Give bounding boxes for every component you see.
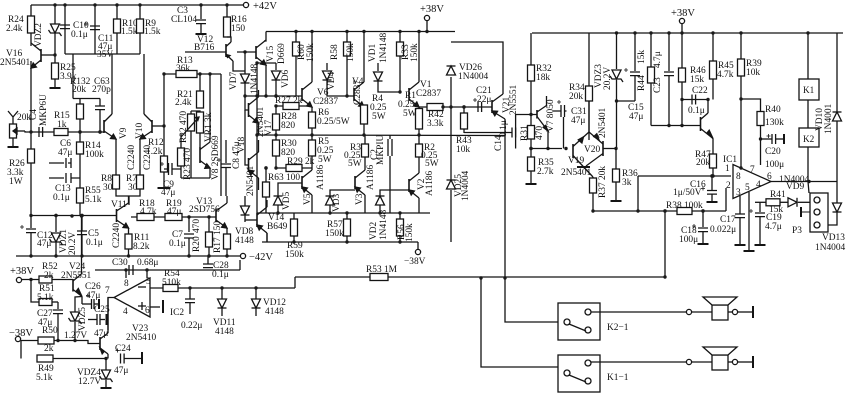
label V4	[352, 77, 364, 87]
label R41 value	[769, 205, 783, 215]
wire R5 down	[311, 156, 313, 168]
resistor R19	[165, 214, 182, 221]
junction	[529, 147, 532, 150]
svg-text:VD5: VD5	[282, 191, 292, 210]
wire V14 base	[245, 219, 257, 221]
svg-text:R40: R40	[765, 105, 781, 115]
label IC1 pin7	[750, 165, 755, 175]
label IC1 pin4	[756, 180, 761, 190]
wire VD1 bottom	[378, 81, 400, 92]
svg-text:R50: R50	[42, 326, 58, 336]
label R5 value	[317, 146, 334, 156]
label R28 value	[281, 121, 295, 131]
wire V4 collector	[363, 32, 365, 83]
resistor R60	[293, 42, 300, 56]
svg-text:8.2k: 8.2k	[133, 242, 150, 252]
wire left col	[256, 96, 258, 135]
wire lag row	[73, 98, 100, 100]
svg-text:2N5401: 2N5401	[561, 168, 592, 178]
label VDZ1	[59, 229, 69, 253]
wire R20 down	[208, 247, 210, 256]
wire VD10 dn	[836, 121, 838, 182]
resistor R33	[397, 42, 404, 56]
wire bias row y74	[164, 73, 221, 75]
wire C27 dn	[57, 314, 59, 341]
label C18	[681, 226, 697, 236]
label V18 type	[246, 165, 256, 196]
junction	[663, 209, 666, 212]
wire C19 up	[759, 202, 761, 212]
junction	[138, 3, 141, 6]
svg-text:100μ: 100μ	[765, 160, 784, 170]
wire output bus	[257, 134, 505, 137]
wire V13 emitter	[226, 228, 228, 234]
svg-text:47μ: 47μ	[114, 366, 128, 376]
label R25	[60, 63, 76, 73]
wire VD9 right	[798, 201, 810, 203]
wire C27 stub	[57, 302, 59, 309]
wire VD7 branch	[244, 71, 246, 96]
label -38V bl	[9, 328, 33, 339]
junction	[680, 98, 683, 101]
wire C25 right	[100, 319, 105, 321]
label C26	[85, 282, 101, 292]
speaker BL1	[703, 297, 737, 320]
diode VD10	[833, 112, 842, 121]
wire R12 stub	[163, 126, 165, 156]
label 20k	[17, 113, 31, 123]
svg-text:+38V: +38V	[420, 4, 444, 15]
wire V10 emitter	[139, 139, 141, 175]
svg-text:0.1μ: 0.1μ	[212, 270, 229, 280]
wire pin1 riser	[637, 176, 639, 211]
label R11 value	[133, 242, 150, 252]
label V9 type	[127, 145, 137, 170]
wire R22 down	[190, 131, 192, 178]
svg-text:4148: 4148	[265, 307, 284, 317]
label C2 type	[376, 135, 386, 165]
wire spk2 bar	[738, 361, 753, 363]
junction	[187, 254, 190, 257]
label R18 value	[140, 207, 157, 217]
capacitor C0.22	[185, 299, 195, 303]
wire V23 emitter leg	[107, 354, 109, 359]
svg-text:0.1μ: 0.1μ	[688, 106, 705, 116]
junction	[615, 99, 618, 102]
label IC2 pin6	[145, 306, 150, 316]
wire R35 gnd	[530, 171, 532, 183]
label R3	[350, 143, 361, 153]
junction	[254, 286, 257, 289]
label R3 watt	[348, 159, 362, 169]
wire R51 right	[52, 301, 58, 303]
label R11	[134, 233, 150, 243]
label +38V right	[671, 8, 695, 19]
junction	[274, 104, 277, 107]
wire V6 emitter	[311, 107, 313, 112]
capacitor C15	[624, 68, 640, 76]
label R27	[275, 96, 303, 106]
label VD10	[815, 108, 825, 131]
wire C17 stub	[739, 196, 741, 214]
label R51	[39, 284, 55, 294]
svg-text:0.1μ: 0.1μ	[71, 30, 88, 40]
label R57 value	[325, 229, 344, 239]
resistor R38	[677, 208, 692, 215]
capacitor C26	[86, 294, 94, 310]
label V17 type	[256, 106, 266, 137]
label VD1 type	[379, 32, 389, 63]
capacitor C30	[129, 265, 133, 275]
label R16	[231, 15, 247, 25]
label IC2 pin4	[123, 307, 128, 317]
terminal +38V right	[679, 18, 684, 23]
terminal bar C25	[106, 314, 108, 325]
resistor R34	[586, 86, 593, 101]
label R49 value	[36, 373, 53, 383]
wire R31 bottom stub	[530, 139, 532, 149]
wire V3 emitter	[364, 195, 366, 213]
svg-text:0.1μ: 0.1μ	[53, 193, 70, 203]
junction	[162, 124, 165, 127]
resistor R7	[137, 175, 144, 189]
terminal spk2 right	[732, 359, 737, 364]
wire C11 branch	[94, 5, 96, 54]
wire VD26 branch	[450, 77, 452, 107]
svg-text:4: 4	[123, 307, 128, 317]
resistor R8	[113, 175, 120, 189]
wire C25 row	[88, 319, 97, 321]
wire V19 base	[531, 148, 562, 150]
wire R33 branch	[399, 32, 401, 43]
label C3	[177, 6, 188, 16]
label R31 value	[535, 126, 545, 140]
label C63	[94, 77, 110, 87]
svg-text:2N5551: 2N5551	[509, 84, 519, 115]
label R50 value	[44, 344, 54, 354]
junction	[294, 30, 297, 33]
label C14	[494, 135, 504, 151]
wire R21 stub	[199, 74, 201, 91]
label R20	[192, 236, 202, 252]
junction	[255, 61, 258, 64]
wire R54 row	[150, 287, 295, 289]
wire IC2 pin5 up	[146, 270, 148, 278]
wire C10 branch	[64, 5, 66, 54]
svg-text:100k: 100k	[85, 150, 104, 160]
resistor R2	[416, 144, 423, 157]
label C15 value	[629, 112, 643, 122]
wire V15 collector	[264, 32, 266, 42]
label R56 value	[405, 223, 415, 242]
svg-text:R27 2k: R27 2k	[275, 96, 303, 106]
label V6 type	[313, 97, 338, 107]
label V9	[119, 127, 129, 139]
label VDZ3 value	[603, 67, 613, 90]
label IC1 pin8	[736, 172, 741, 182]
label R32 value	[536, 73, 550, 83]
svg-text:C2240: C2240	[112, 223, 122, 248]
wire V16 emitter leg	[30, 61, 32, 149]
label V20	[584, 145, 600, 155]
junction	[276, 211, 279, 214]
junction	[398, 240, 401, 243]
label C21	[476, 86, 492, 96]
label R4 value	[370, 103, 387, 113]
label R22	[179, 111, 189, 143]
wire VD12 stub	[255, 288, 257, 299]
svg-text:4.7k: 4.7k	[140, 207, 157, 217]
wire R57 branch	[346, 213, 348, 219]
svg-text:5.1k: 5.1k	[36, 373, 53, 383]
wire pin2 riser	[725, 188, 727, 211]
wire R24 branch	[30, 5, 32, 46]
wire V12 emitter path	[233, 61, 245, 71]
resistor R50	[38, 337, 54, 344]
junction	[80, 214, 83, 217]
wire right col x221	[220, 74, 222, 196]
wire R40 branch	[741, 99, 761, 112]
svg-text:1W: 1W	[9, 177, 23, 187]
svg-text:C2837: C2837	[416, 89, 441, 99]
junction	[264, 94, 267, 97]
resistor R63	[263, 182, 270, 197]
transistor V3	[355, 170, 365, 195]
svg-text:47μ: 47μ	[37, 239, 51, 249]
svg-text:47μ: 47μ	[571, 116, 585, 126]
svg-text:150k: 150k	[285, 250, 304, 260]
label R33 value	[410, 43, 420, 62]
svg-text:150: 150	[231, 24, 245, 34]
svg-text:4.7μ: 4.7μ	[765, 222, 782, 232]
svg-text:CL104: CL104	[171, 15, 197, 25]
svg-text:V15: V15	[266, 46, 276, 62]
resistor R45	[710, 61, 717, 79]
junction	[63, 3, 66, 6]
label C22 value	[688, 106, 705, 116]
label -38V	[404, 257, 426, 267]
label R51 value	[37, 293, 54, 303]
wire R1 down	[418, 129, 420, 135]
ground R12	[158, 187, 171, 189]
transistor V21	[492, 94, 505, 119]
label VD25	[454, 174, 464, 197]
wire V14 collector	[266, 200, 268, 207]
capacitor C22	[692, 95, 696, 105]
label V11	[111, 200, 127, 210]
transistor V24	[73, 274, 82, 297]
label V5	[303, 193, 313, 205]
wire V12 base	[185, 51, 226, 53]
svg-text:7: 7	[105, 286, 110, 296]
wire C63 branch	[99, 99, 101, 107]
label R5 watt	[318, 155, 332, 165]
wire R36 gnd	[615, 182, 617, 200]
wire V24 emitter node	[81, 297, 83, 305]
svg-text:8: 8	[124, 279, 129, 289]
label R16 value	[231, 24, 245, 34]
svg-text:V9: V9	[119, 127, 129, 139]
capacitor C10	[60, 25, 70, 29]
wire pin5 stub	[748, 192, 750, 250]
label C5 value	[86, 238, 103, 248]
wire R13 left leg	[163, 74, 165, 126]
svg-text:15k: 15k	[690, 75, 704, 85]
wire VD6 top row	[257, 63, 276, 96]
label R52	[42, 262, 58, 272]
transistor V10	[140, 114, 152, 139]
wire V7 collector	[546, 96, 548, 106]
label R49	[38, 364, 54, 374]
svg-text:30: 30	[128, 183, 138, 193]
wire VDZ3 C15 join	[617, 100, 636, 102]
label VD6	[281, 69, 291, 88]
label R42 value	[427, 119, 444, 129]
svg-text:K2−1: K2−1	[607, 323, 629, 333]
resistor R17	[224, 234, 231, 249]
label IC1 pin2	[726, 181, 731, 191]
wire VDZ3 branch	[616, 33, 618, 69]
diode VD25	[447, 180, 456, 189]
wire VDZ5 link	[75, 297, 82, 313]
label R58	[330, 44, 340, 60]
terminal +42V	[243, 1, 277, 12]
junction	[739, 97, 742, 100]
wire V10 base	[152, 125, 164, 127]
wire R5 branch	[311, 135, 313, 140]
junction	[56, 339, 59, 342]
wire VD8 bottom	[244, 215, 246, 222]
wire R30 down	[275, 156, 277, 168]
svg-text:A1186: A1186	[366, 165, 376, 190]
wire C15 branch	[634, 33, 636, 71]
wire C19 dn	[759, 217, 761, 244]
wire R32 branch	[530, 33, 532, 65]
terminal -38V	[415, 249, 420, 254]
svg-text:R17 150: R17 150	[213, 221, 223, 253]
capacitor C11	[84, 22, 100, 30]
transistor V20	[586, 132, 603, 166]
resistor R22	[188, 114, 195, 131]
wire V10 collector	[143, 54, 145, 114]
label VD25 type	[461, 170, 471, 201]
junction	[225, 254, 228, 257]
wire C16 stub	[711, 176, 713, 190]
wire R20 branch	[208, 217, 210, 232]
terminal -38V bl	[15, 336, 20, 341]
wire C5 down	[81, 235, 83, 256]
svg-text:A1186: A1186	[316, 165, 326, 190]
terminal bar C24	[141, 352, 143, 364]
resistor R35	[528, 157, 535, 171]
resistor R42	[427, 104, 443, 111]
resistor R20	[206, 232, 213, 247]
label R42	[428, 110, 444, 120]
label R32	[536, 64, 552, 74]
svg-text:MKP6U: MKP6U	[39, 94, 49, 126]
wire -38 col	[20, 341, 22, 359]
svg-text:R29 2k: R29 2k	[287, 157, 315, 167]
label R12 value	[146, 147, 163, 157]
wire left col lower	[256, 135, 258, 213]
wire R46 branch	[681, 33, 683, 68]
label C20	[765, 147, 781, 157]
junction	[70, 214, 73, 217]
label R5	[318, 137, 329, 147]
svg-text:0.1μ: 0.1μ	[499, 120, 509, 137]
svg-text:5W: 5W	[348, 159, 362, 169]
label V24 type	[61, 271, 92, 281]
label C25 value	[94, 329, 108, 339]
wire R16 branch	[226, 5, 228, 17]
svg-text:VD7: VD7	[229, 71, 239, 90]
label V21	[502, 97, 512, 113]
label V16	[6, 49, 22, 59]
wire VD11 stub	[221, 288, 223, 299]
svg-text:47μ: 47μ	[161, 188, 175, 198]
resistor R10	[114, 19, 121, 33]
label R29	[287, 157, 315, 167]
wire VD13 dn	[828, 212, 837, 225]
junction	[145, 268, 148, 271]
wire R25 gnd	[54, 79, 56, 87]
wire R60 branch	[295, 32, 297, 43]
wire C3 branch	[200, 5, 202, 19]
wire K1 K2	[807, 100, 809, 128]
svg-text:K2: K2	[803, 134, 815, 144]
label C4	[29, 109, 39, 120]
svg-text:2N5410: 2N5410	[126, 333, 157, 343]
junction	[427, 105, 430, 108]
junction	[417, 133, 420, 136]
label V1 type	[416, 89, 441, 99]
svg-text:D669: D669	[277, 43, 287, 64]
wire C17 dn	[739, 218, 741, 244]
wire upper bus	[245, 95, 302, 97]
label R1 watt	[403, 109, 417, 119]
label C31 value	[571, 116, 585, 126]
resistor R55	[77, 188, 84, 203]
resistor R44	[648, 67, 655, 83]
junction	[417, 30, 420, 33]
wire spk2 out	[728, 361, 732, 363]
svg-text:C20: C20	[765, 147, 781, 157]
ground C3	[196, 33, 207, 35]
wire R9 branch	[139, 5, 141, 54]
label IC2 pin5	[146, 277, 151, 287]
zener VDZ1	[50, 233, 63, 245]
wire C12 down	[30, 233, 32, 256]
transistor VT right	[701, 113, 714, 139]
label V13	[196, 197, 212, 207]
label R36 value	[622, 178, 632, 188]
svg-text:2k: 2k	[44, 344, 54, 354]
label K2-1	[607, 323, 629, 333]
resistor R54	[163, 285, 178, 292]
wire K chain top	[807, 33, 809, 79]
junction	[441, 105, 444, 108]
wire K2 down	[808, 147, 809, 193]
label IC2 pin7	[105, 286, 110, 296]
resistor R13	[176, 71, 197, 78]
wire C16 dn	[711, 194, 713, 201]
junction	[701, 209, 704, 212]
label C15	[628, 103, 644, 113]
label C16	[690, 180, 706, 190]
junction	[207, 254, 210, 257]
wire V6 collector	[311, 32, 313, 83]
resistor R53	[370, 274, 388, 281]
